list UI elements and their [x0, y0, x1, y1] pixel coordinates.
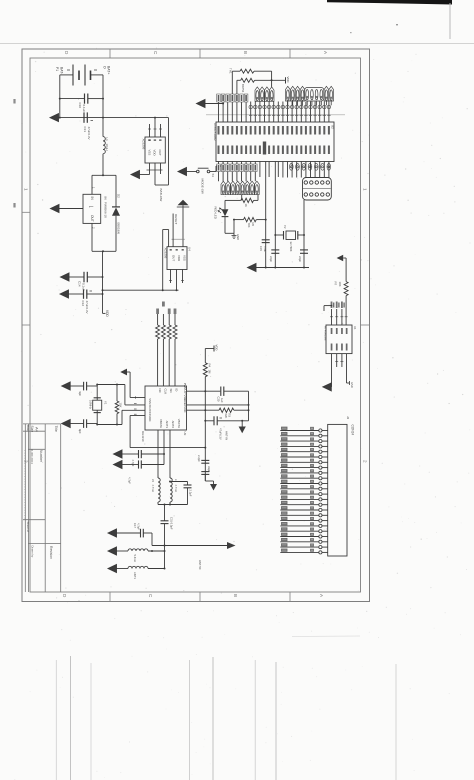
svg-text:U6: U6: [104, 196, 108, 200]
title block: [23, 424, 61, 592]
sheet frame inner: [30, 58, 361, 592]
wire regulator loop: [92, 174, 116, 252]
svg-text:BAT54: BAT54: [241, 84, 245, 93]
wire crystal right: [303, 200, 305, 268]
svg-text:16MHz: 16MHz: [89, 400, 93, 409]
wire to U4 loop: [154, 117, 169, 185]
svg-text:SD: SD: [169, 389, 173, 393]
svg-text:47uF6.3V: 47uF6.3V: [87, 127, 91, 140]
resistor R4 1M: [203, 363, 211, 481]
svg-text:ANT1: ANT1: [165, 421, 169, 429]
LED D1: [218, 200, 234, 233]
svg-text:L1: L1: [105, 138, 109, 142]
svg-text:VBXTA: VBXTA: [177, 419, 181, 428]
svg-text:C14: C14: [78, 281, 82, 287]
IC U1: [323, 325, 357, 354]
resistor RP3 pullup: [167, 309, 171, 387]
wire PWRUP: [187, 390, 221, 392]
svg-text:S1: S1: [211, 174, 215, 178]
inductor L4: [108, 547, 166, 562]
svg-text:RED-LED: RED-LED: [214, 207, 218, 219]
scan artifact: faint page-top line: [0, 42, 474, 45]
svg-text:U3: U3: [183, 432, 187, 436]
capacitor C26 2.2pF: [169, 481, 193, 505]
svg-text:C: C: [148, 594, 153, 598]
svg-text:9pF: 9pF: [78, 429, 82, 434]
wire U5 bottom pins: [169, 270, 184, 292]
wire RESET: [172, 214, 174, 247]
wire bat left: [59, 75, 61, 118]
U2 top pin wires: [219, 102, 329, 123]
IC U2 AT89C51: [213, 122, 334, 162]
diode D2: [112, 194, 121, 234]
inductor L5: [151, 478, 160, 505]
wire connector pins: [280, 427, 327, 554]
svg-text:C20: C20: [217, 397, 221, 402]
svg-text:O: O: [103, 66, 107, 69]
inductor L2: [108, 565, 166, 580]
svg-text:Y1: Y1: [104, 401, 108, 405]
power flag VDD U5: [172, 200, 190, 247]
resistor R TH1: [229, 68, 273, 94]
svg-text:D: D: [64, 51, 69, 55]
svg-text:VDD: VDD: [148, 415, 152, 421]
svg-text:R-360-2004: R-360-2004: [30, 449, 34, 464]
capacitor C22 2.2pF: [197, 447, 209, 464]
svg-text:1uF: 1uF: [220, 398, 224, 403]
svg-text:OUT: OUT: [90, 215, 94, 222]
capacitor C9 9pF: [70, 419, 97, 434]
svg-text:2.2pF: 2.2pF: [197, 455, 201, 462]
svg-text:XC6206: XC6206: [163, 248, 167, 259]
svg-text:BAT-: BAT-: [60, 67, 64, 74]
svg-text:2: 2: [363, 460, 368, 463]
svg-text:A: A: [323, 51, 328, 55]
svg-text:Title: Title: [54, 426, 58, 432]
svg-text:VSS: VSS: [182, 255, 186, 261]
connector header H1: [255, 87, 274, 101]
ground C9: [62, 420, 70, 428]
capacitor C17: [108, 523, 152, 546]
svg-text:4.7nH: 4.7nH: [174, 485, 178, 492]
net label boxes bottom row: [217, 164, 257, 172]
ground C14: [61, 273, 70, 281]
svg-text:Sheet of: Sheet of: [26, 522, 30, 533]
svg-text:VDD: VDD: [153, 150, 157, 156]
svg-text:VBATA: VBATA: [159, 419, 163, 428]
svg-text:0.1uF: 0.1uF: [82, 105, 86, 113]
svg-text:PW6566-18: PW6566-18: [104, 202, 108, 218]
wire bat right: [102, 75, 104, 137]
net label boxes group A: [217, 94, 248, 102]
svg-text:22pF: 22pF: [269, 256, 273, 262]
svg-text:33pF: 33pF: [207, 466, 211, 472]
svg-text:TH1: TH1: [229, 68, 233, 74]
capacitor C14: [69, 272, 104, 291]
wire U5 loop to rail: [163, 230, 169, 291]
svg-text:4.7pF: 4.7pF: [137, 523, 141, 530]
connector header H3: [303, 178, 332, 201]
svg-text:VDD: VDD: [177, 255, 181, 261]
ground C8: [62, 382, 70, 390]
wire reg out: [102, 251, 104, 290]
wire VSS U3 right: [187, 404, 249, 406]
svg-text:22pF: 22pF: [298, 256, 302, 262]
svg-text:Date:: Date:: [26, 425, 30, 432]
capacitor C8 9pF: [70, 382, 97, 397]
wire VDD rail: [102, 289, 179, 313]
svg-text:CLK: CLK: [164, 389, 168, 395]
svg-text:VDD: VDD: [105, 310, 109, 317]
wire match bottom rail: [158, 504, 188, 521]
ground U1: [323, 383, 332, 391]
scan artifact: top black bar: [327, 0, 452, 39]
svg-text:2: 2: [24, 460, 29, 463]
svg-text:VDD: VDD: [183, 406, 187, 412]
capacitor C21 47uF: [204, 416, 248, 440]
regulator U5 XC6206: [163, 247, 191, 270]
svg-text:BAT+: BAT+: [107, 66, 111, 74]
svg-text:R4: R4: [208, 364, 212, 368]
svg-text:47uF6.3V: 47uF6.3V: [219, 428, 223, 440]
svg-text:C10: C10: [78, 103, 82, 109]
inductor L3: [170, 478, 178, 505]
wire scan streak: [206, 114, 345, 116]
connector header H2: [286, 86, 334, 105]
wire crystal left branch: [274, 162, 276, 268]
svg-text:47uF6.3V: 47uF6.3V: [85, 301, 89, 314]
svg-text:C: C: [153, 51, 158, 55]
svg-text:AT89C51RB2: AT89C51RB2: [213, 123, 217, 141]
svg-text:U4: U4: [188, 247, 192, 251]
ground rail crystal: [248, 264, 310, 272]
svg-text:32.768K: 32.768K: [289, 242, 293, 252]
svg-text:A: A: [319, 594, 324, 598]
svg-text:1M: 1M: [208, 370, 212, 375]
svg-text:10K: 10K: [338, 282, 342, 287]
ground arrow down: [239, 420, 246, 434]
connector header H4: [221, 181, 259, 194]
wire right tie: [248, 391, 250, 421]
capacitor C25 4.7pF: [114, 460, 165, 484]
ground U2 left: [197, 100, 225, 108]
svg-text:22K: 22K: [224, 414, 228, 419]
svg-text:ANT-50: ANT-50: [198, 560, 202, 570]
wire C15 branch: [265, 162, 267, 268]
capacitor C15: [259, 240, 270, 253]
scan artifact: faint vertical lines bottom: [56, 636, 396, 780]
svg-text:GND: GND: [350, 382, 354, 388]
svg-text:R3: R3: [228, 414, 232, 418]
svg-text:4.7pF: 4.7pF: [128, 477, 132, 484]
svg-text:C17: C17: [133, 523, 137, 528]
connector J2 CON24: [328, 416, 355, 556]
regulator U4 XC6206: [142, 124, 166, 175]
crystal Y1: [89, 384, 146, 426]
resistor R5 1K LED: [225, 195, 258, 207]
svg-text:4.7nH: 4.7nH: [151, 485, 155, 492]
regulator U6: [83, 187, 108, 229]
svg-text:B5819W: B5819W: [117, 223, 121, 235]
svg-text:C13: C13: [83, 127, 87, 133]
svg-text:4.7pF: 4.7pF: [131, 460, 135, 467]
svg-text:Revision: Revision: [49, 546, 53, 559]
svg-text:B: B: [243, 51, 248, 54]
svg-text:CON24: CON24: [351, 425, 355, 436]
svg-text:GND: GND: [236, 234, 240, 240]
svg-text:1: 1: [24, 188, 29, 191]
svg-text:R7: R7: [334, 282, 338, 286]
ground C12: [60, 290, 69, 298]
battery P1: [60, 65, 103, 86]
resistor R2 1M: [115, 384, 122, 426]
svg-text:OUT: OUT: [158, 150, 162, 156]
svg-text:47uF: 47uF: [263, 246, 267, 252]
resistor RP4 pullup: [173, 309, 177, 387]
resistor R3 22K: [187, 408, 249, 418]
capacitor C20 1uF: [217, 387, 249, 403]
svg-text:L3: L3: [174, 479, 178, 482]
svg-text:U2: U2: [331, 125, 335, 129]
svg-text:1: 1: [363, 188, 368, 191]
wire antenna feed: [152, 542, 236, 549]
capacitor C18: [298, 250, 308, 263]
ground arrow down C23: [205, 474, 217, 490]
svg-text:1K: 1K: [244, 204, 248, 208]
svg-text:L5: L5: [151, 479, 155, 482]
power flag right of R: [286, 77, 291, 84]
svg-text:VSS: VSS: [147, 150, 151, 156]
resistor RP1 pullup: [156, 309, 160, 387]
svg-text:R6: R6: [251, 223, 255, 227]
ground U4: [131, 171, 150, 179]
svg-text:ANT2: ANT2: [171, 421, 175, 429]
crystal Y2: [274, 225, 305, 252]
wire U1 top pins: [324, 305, 348, 325]
svg-text:VDD: VDD: [215, 345, 219, 351]
capacitor C13: [83, 112, 93, 139]
capacitor C24 4.7pF: [114, 450, 166, 467]
svg-text:Drawn by: Drawn by: [31, 546, 35, 558]
svg-text:DH4219: DH4219: [141, 431, 145, 442]
svg-text:XC6206: XC6206: [142, 139, 146, 150]
svg-text:RESET: RESET: [174, 214, 178, 224]
sheet frame outer: [22, 49, 370, 602]
ground U6: [51, 205, 84, 213]
svg-text:9pF: 9pF: [78, 392, 82, 397]
zone letters: [13, 51, 367, 598]
power flag U1: [337, 255, 347, 282]
svg-text:PWRUP: PWRUP: [183, 383, 187, 394]
net label pads row: [249, 105, 331, 115]
node labels U1 top: [331, 302, 345, 309]
svg-text:A4: A4: [35, 427, 40, 433]
IC U3 RF transceiver: [145, 383, 187, 436]
svg-text:OUT: OUT: [171, 255, 175, 261]
svg-text:D: D: [62, 594, 67, 598]
resistor RP2 pullup: [161, 302, 165, 387]
capacitor C23 33pF: [201, 466, 211, 474]
capacitor C31: [161, 517, 174, 569]
wire U1 bottom pins: [332, 354, 347, 387]
capacitor C12: [69, 290, 104, 314]
wire L1 to reg: [102, 154, 104, 176]
ground: [50, 114, 60, 122]
svg-text:⎣: ⎣: [89, 206, 93, 208]
ground small: [232, 233, 241, 240]
svg-text:U1: U1: [353, 326, 357, 330]
svg-text:J2: J2: [346, 416, 350, 420]
svg-text:ANT1: ANT1: [133, 572, 137, 579]
wire U3 VDD down-around: [130, 416, 205, 448]
resistor R7: [334, 282, 349, 326]
svg-text:ANT-IN: ANT-IN: [225, 431, 229, 440]
svg-text:10K: 10K: [118, 403, 122, 408]
svg-text:10uH: 10uH: [105, 144, 109, 151]
svg-text:NC: NC: [158, 389, 162, 393]
resistor R6 70K: [233, 217, 267, 233]
svg-text:2.2pF: 2.2pF: [189, 490, 193, 497]
wire U3 bottom pins: [158, 430, 170, 478]
svg-text:BATLOW: BATLOW: [159, 189, 163, 202]
svg-text:Y2: Y2: [283, 225, 287, 229]
svg-text:ID: ID: [175, 389, 179, 392]
svg-text:P1: P1: [55, 67, 59, 71]
svg-text:D2: D2: [117, 194, 121, 198]
ground small U1 right: [347, 381, 355, 388]
svg-text:5.6nH: 5.6nH: [133, 555, 137, 562]
svg-text:C12: C12: [81, 301, 85, 307]
wire gnd rail: [60, 117, 169, 119]
U2 pin name rows: [218, 126, 330, 155]
svg-text:70K: 70K: [247, 223, 251, 228]
capacitor C16: [269, 250, 279, 263]
svg-text:C31 0.5pF: C31 0.5pF: [170, 517, 174, 530]
switch S1 MODE: [178, 162, 223, 178]
svg-text:MODE-SW: MODE-SW: [201, 179, 205, 194]
zone ticks top: [22, 49, 370, 602]
svg-text:C15: C15: [259, 246, 263, 251]
power flag U3 left: [120, 369, 145, 398]
resistor R 10K: [237, 78, 285, 94]
inductor L1: [103, 137, 109, 154]
U2 bottom pin wires: [219, 162, 329, 182]
svg-text:Number: Number: [39, 450, 43, 463]
pad ovals right group: [290, 163, 331, 170]
svg-text:VDD: VDD: [286, 77, 290, 83]
capacitor C10: [59, 94, 104, 113]
svg-text:VSS: VSS: [148, 398, 152, 404]
svg-text:HT46R03M: HT46R03M: [323, 326, 327, 341]
net flag VD: [205, 345, 218, 363]
svg-text:B: B: [233, 594, 238, 597]
